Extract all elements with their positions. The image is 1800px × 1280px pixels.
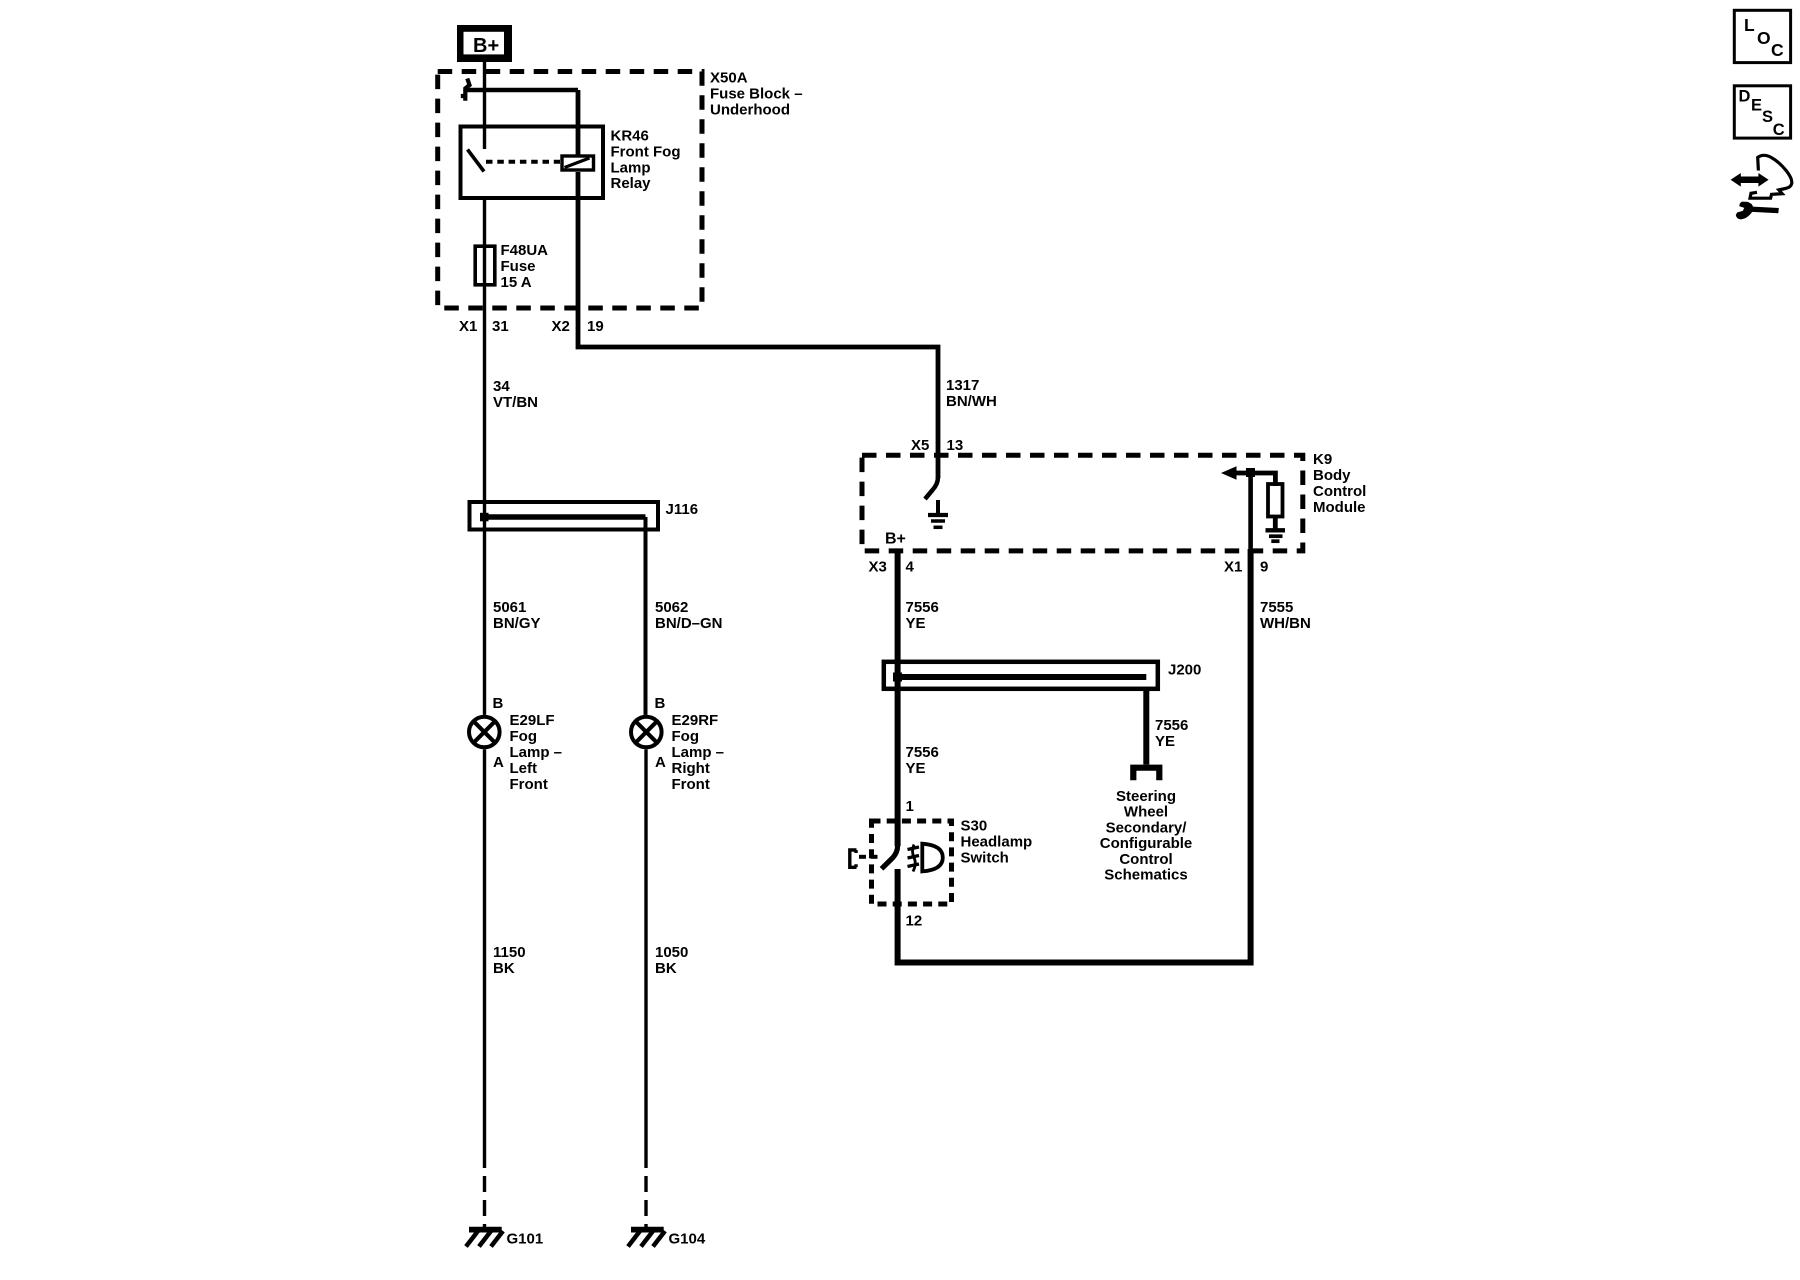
wire relay coil output through X2 19 to BCM [576, 90, 581, 155]
svg-text:F48UA: F48UA [501, 242, 549, 259]
label 5062 BN/D-GN [655, 599, 723, 632]
BCM resistor ground [1266, 517, 1286, 542]
label X50A Fuse Block - Underhood [710, 70, 803, 119]
svg-text:O: O [1757, 28, 1771, 48]
pin label X3 4 [869, 559, 915, 576]
svg-text:1150: 1150 [493, 944, 526, 961]
wire 1150 BK below E29LF [483, 749, 486, 1168]
navigation icon double arrow [1731, 173, 1769, 187]
svg-text:X1: X1 [1224, 559, 1242, 576]
svg-text:4: 4 [906, 559, 915, 576]
label E29RF Fog Lamp - Right Front [672, 712, 725, 793]
svg-text:Body: Body [1313, 467, 1351, 484]
S30 fog lamp icon [908, 844, 943, 872]
label S30 Headlamp Switch [961, 818, 1033, 867]
svg-text:Module: Module [1313, 499, 1366, 516]
svg-text:Front: Front [672, 776, 710, 793]
svg-text:X3: X3 [869, 559, 887, 576]
wire 1050 BK below E29RF [644, 749, 647, 1168]
label 34 VT/BN [493, 378, 538, 411]
pin label X1 31 [459, 318, 509, 335]
svg-text:Relay: Relay [611, 175, 652, 192]
svg-text:7556: 7556 [1155, 717, 1188, 734]
svg-text:Lamp: Lamp [611, 160, 651, 177]
fog lamp E29LF [469, 717, 500, 748]
label 7556 YE upper [906, 599, 939, 632]
dashed wire to G101 [483, 1176, 486, 1231]
svg-text:K9: K9 [1313, 451, 1332, 468]
S30 mechanical link E [850, 850, 878, 867]
fuse F48UA [475, 246, 495, 285]
svg-text:G104: G104 [669, 1231, 706, 1248]
svg-text:15 A: 15 A [501, 274, 532, 291]
svg-text:E29LF: E29LF [510, 712, 555, 729]
svg-text:D: D [1739, 88, 1751, 106]
label 1317 BN/WH [946, 377, 997, 410]
svg-text:E: E [1751, 96, 1762, 114]
label E29LF Fog Lamp - Left Front [510, 712, 563, 793]
navigation icon vehicle outline [1750, 155, 1792, 198]
off-page connector fork to steering wheel [1133, 768, 1159, 781]
svg-text:13: 13 [947, 437, 964, 454]
svg-text:Right: Right [672, 760, 710, 777]
BCM K9 dashed box [862, 455, 1303, 551]
svg-text:1: 1 [906, 798, 914, 815]
svg-text:9: 9 [1260, 559, 1268, 576]
svg-text:Headlamp: Headlamp [961, 834, 1033, 851]
svg-text:Steering: Steering [1116, 788, 1176, 805]
svg-text:L: L [1744, 15, 1755, 35]
label 5061 BN/GY [493, 599, 541, 632]
svg-text:B: B [493, 695, 504, 712]
svg-text:BN/WH: BN/WH [946, 393, 997, 410]
svg-text:7555: 7555 [1260, 599, 1293, 616]
svg-text:A: A [493, 754, 504, 771]
label 7555 WH/BN [1260, 599, 1311, 632]
wire B+ feed down into fuse block [483, 62, 486, 149]
svg-text:WH/BN: WH/BN [1260, 615, 1311, 632]
svg-text:X5: X5 [911, 437, 929, 454]
svg-text:5062: 5062 [655, 599, 688, 616]
svg-text:Fog: Fog [510, 728, 538, 745]
wire relay switch output down to fuse [483, 198, 486, 245]
svg-text:Fog: Fog [672, 728, 700, 745]
svg-text:BN/GY: BN/GY [493, 615, 541, 632]
svg-text:7556: 7556 [906, 744, 939, 761]
label KR46 Front Fog Lamp Relay [611, 128, 681, 193]
svg-text:A: A [655, 754, 666, 771]
ground G101 [466, 1230, 503, 1247]
BCM internal arrow (output driver) [1221, 466, 1237, 479]
svg-text:B+: B+ [885, 531, 906, 548]
svg-text:J200: J200 [1168, 662, 1201, 679]
BCM internal ground [928, 500, 948, 527]
BCM internal pull resistor [1268, 484, 1283, 517]
svg-text:BK: BK [655, 960, 677, 977]
svg-text:G101: G101 [507, 1231, 544, 1248]
svg-text:X50A: X50A [710, 70, 748, 87]
svg-text:S: S [1762, 108, 1773, 126]
LOC icon box [1734, 10, 1790, 62]
svg-text:YE: YE [906, 615, 926, 632]
fuse block X50A dashed box [438, 72, 702, 309]
label K9 Body Control Module [1313, 451, 1366, 516]
pin label X1 9 [1224, 559, 1268, 576]
svg-text:BN/D–GN: BN/D–GN [655, 615, 723, 632]
svg-text:S30: S30 [961, 818, 988, 835]
splice pack J116 [470, 502, 659, 530]
svg-text:BK: BK [493, 960, 515, 977]
wire 5062 BN/D-GN from J116 down to right fog lamp [644, 517, 648, 715]
splice pack J200 [884, 662, 1158, 689]
svg-text:X2: X2 [552, 318, 570, 335]
svg-text:34: 34 [493, 378, 510, 395]
svg-text:12: 12 [906, 913, 923, 930]
ground G104 [628, 1230, 665, 1247]
svg-text:VT/BN: VT/BN [493, 394, 538, 411]
crimp hook symbol at branch [461, 79, 470, 101]
svg-text:19: 19 [587, 318, 604, 335]
svg-text:Front Fog: Front Fog [611, 144, 681, 161]
label 1050 BK [655, 944, 688, 977]
label 1150 BK [493, 944, 526, 977]
svg-text:B+: B+ [473, 35, 499, 57]
svg-text:Lamp –: Lamp – [510, 744, 563, 761]
svg-text:KR46: KR46 [611, 128, 649, 145]
svg-text:Fuse: Fuse [501, 258, 536, 275]
label 7556 YE lower [906, 744, 939, 777]
svg-text:E29RF: E29RF [672, 712, 719, 729]
svg-text:1050: 1050 [655, 944, 688, 961]
label 7556 YE right [1155, 717, 1188, 750]
label F48UA Fuse 15 A [501, 242, 549, 291]
S30 switch arm [882, 846, 898, 869]
svg-text:Lamp –: Lamp – [672, 744, 725, 761]
labels B / A for E29LF [493, 695, 505, 771]
svg-text:C: C [1773, 121, 1785, 139]
headlamp switch S30 dashed box [872, 821, 952, 904]
svg-text:YE: YE [1155, 733, 1175, 750]
svg-text:Configurable: Configurable [1100, 835, 1193, 852]
svg-text:J116: J116 [666, 501, 699, 518]
svg-text:Control: Control [1313, 483, 1366, 500]
pin label X5 13 [911, 437, 963, 454]
svg-text:1317: 1317 [946, 377, 979, 394]
wire 7555 WH/BN from BCM X1-9 down [898, 549, 1251, 963]
pin label X2 19 [552, 318, 604, 335]
junction node [1246, 468, 1255, 477]
svg-text:B: B [655, 695, 666, 712]
dashed wire to G104 [644, 1176, 647, 1231]
label Steering Wheel Secondary/Configurable Control Schematics [1100, 788, 1193, 884]
relay switch arm [468, 150, 485, 172]
wire 34 VT/BN from fuse down to J116 [483, 287, 486, 715]
svg-text:5061: 5061 [493, 599, 526, 616]
svg-text:Schematics: Schematics [1104, 867, 1187, 884]
svg-text:Underhood: Underhood [710, 102, 790, 119]
svg-text:Fuse Block –: Fuse Block – [710, 86, 803, 103]
DESC icon box [1734, 86, 1790, 139]
labels B / A for E29RF [655, 695, 667, 771]
wrench icon [1736, 202, 1779, 220]
relay actuation dashed link [486, 160, 560, 164]
svg-text:Secondary/: Secondary/ [1106, 819, 1188, 836]
BCM internal switch arm [925, 477, 938, 499]
svg-text:YE: YE [906, 760, 926, 777]
wire 7556 YE from BCM X3-4 down through J200 to S30 [895, 549, 901, 846]
svg-text:Control: Control [1119, 851, 1172, 868]
svg-text:Switch: Switch [961, 850, 1009, 867]
svg-text:7556: 7556 [906, 599, 939, 616]
svg-text:Wheel: Wheel [1124, 804, 1168, 821]
wire branch to relay coil (horizontal) [466, 88, 579, 93]
svg-text:X1: X1 [459, 318, 477, 335]
relay coil [562, 156, 594, 170]
wire 7556 YE from J200 to steering wheel controls [1143, 691, 1149, 765]
svg-text:Front: Front [510, 776, 548, 793]
relay KR46 box [461, 127, 604, 199]
fog lamp E29RF [631, 717, 662, 748]
B+ battery feed box [457, 25, 512, 62]
svg-text:Left: Left [510, 760, 538, 777]
svg-text:31: 31 [492, 318, 509, 335]
svg-text:C: C [1771, 40, 1784, 60]
